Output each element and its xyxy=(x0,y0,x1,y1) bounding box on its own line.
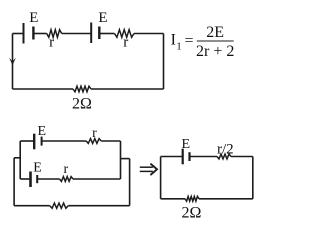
battery cell 1 (E) short plate xyxy=(32,27,34,40)
battery cell 4 (E) short plate xyxy=(36,175,38,183)
current direction arrow (down) on left wire xyxy=(9,58,16,66)
wire: eq circuit top-left segment xyxy=(161,156,183,158)
resistor 2 ohm (top circuit load) xyxy=(73,86,91,92)
svg-text:r: r xyxy=(63,162,68,177)
svg-text:r: r xyxy=(49,35,54,51)
resistor R external (bottom-left circuit) xyxy=(50,203,68,208)
wire: cell 5 to resistor r/2 xyxy=(190,156,218,158)
svg-text:E: E xyxy=(29,10,38,26)
wire: r3 to right xyxy=(101,140,120,142)
wire: eq circuit bottom-right segment xyxy=(199,198,253,200)
wire: right junction connector xyxy=(121,158,130,160)
svg-text:E: E xyxy=(98,10,107,26)
wire: outer bottom right segment xyxy=(68,205,129,207)
svg-text:E: E xyxy=(182,137,191,152)
resistor r2 (internal resistance of cell 2) xyxy=(115,30,135,38)
wire: eq circuit left vertical xyxy=(160,157,162,199)
wire: r4 to right xyxy=(73,178,121,180)
wire: top circuit top-left segment xyxy=(13,33,24,35)
wire: inner right vertical xyxy=(120,141,122,179)
resistor r/2 (equivalent internal resistance) xyxy=(217,154,231,159)
wire: top circuit bottom right segment xyxy=(91,88,164,90)
resistor r3 (branch 1) xyxy=(86,139,101,144)
implies arrow (double arrow) xyxy=(140,164,157,174)
battery cell 1 (E) long plate xyxy=(23,23,25,44)
battery cell 2 (E) long plate xyxy=(90,23,92,44)
wire: cell 3 to resistor r3 xyxy=(42,140,87,142)
svg-text:r: r xyxy=(123,35,128,51)
svg-text:2r + 2: 2r + 2 xyxy=(196,43,234,60)
svg-text:r/2: r/2 xyxy=(217,142,234,158)
battery cell 5 (E equivalent) long plate xyxy=(182,149,184,165)
wire: r/2 to right corner xyxy=(231,156,253,158)
battery cell 3 (E) short plate xyxy=(41,137,43,146)
wire: inner left vertical xyxy=(19,141,21,179)
wire: outer bottom left segment xyxy=(14,205,50,207)
svg-text:1: 1 xyxy=(176,41,182,53)
svg-text:2E: 2E xyxy=(206,24,224,41)
battery cell 2 (E) short plate xyxy=(98,27,100,40)
svg-text:E: E xyxy=(38,124,47,139)
svg-text:E: E xyxy=(33,161,42,176)
wire: left junction connector xyxy=(14,157,20,159)
wire: cell1 to resistor r1 xyxy=(33,33,46,35)
svg-text:r: r xyxy=(92,126,97,141)
battery cell 5 (E equivalent) short plate xyxy=(188,152,190,161)
wire: top circuit right vertical xyxy=(163,34,165,90)
wire: top circuit bottom left segment xyxy=(13,88,74,90)
svg-text:=: = xyxy=(185,32,194,49)
svg-text:2Ω: 2Ω xyxy=(72,95,92,112)
resistor 2 ohm (equivalent circuit load) xyxy=(185,196,199,201)
wire: branch1 left segment xyxy=(20,140,34,142)
wire: top circuit left vertical xyxy=(12,34,14,90)
wire: eq circuit bottom-left segment xyxy=(161,198,185,200)
wire: r1 to cell 2 xyxy=(62,33,91,35)
wire: branch2 left segment xyxy=(20,178,30,180)
battery cell 3 (E) long plate xyxy=(33,134,35,150)
svg-text:2Ω: 2Ω xyxy=(182,205,202,222)
wire: outer left vertical xyxy=(13,158,15,206)
wire: outer right vertical xyxy=(129,159,131,206)
wire: eq circuit right vertical xyxy=(252,157,254,199)
resistor r4 (branch 2) xyxy=(60,177,74,182)
wire: cell 2 to resistor r2 xyxy=(99,33,114,35)
wire: cell 4 to resistor r4 xyxy=(37,178,59,180)
wire: r2 to right corner xyxy=(134,33,164,35)
formula I1 = 2E/(2r+2) xyxy=(171,24,235,60)
resistor r1 (internal resistance of cell 1) xyxy=(47,30,62,38)
battery cell 4 (E) long plate xyxy=(29,172,32,188)
svg-text:I: I xyxy=(171,32,176,49)
